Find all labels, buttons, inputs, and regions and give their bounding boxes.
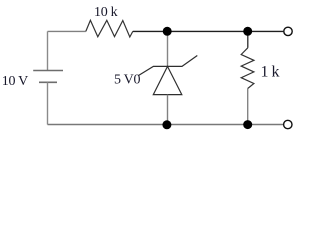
wire: left branch down from top rail to battery positive plate — [47, 31, 49, 70]
node D junction dot (bottom, load branch) — [243, 120, 252, 129]
node B junction dot (top, load branch) — [243, 27, 252, 36]
svg-text:10 V: 10 V — [2, 74, 28, 89]
battery V1 negative plate (short) — [39, 81, 57, 83]
resistor R2 1 k (vertical zigzag) — [241, 48, 254, 89]
node A junction dot (top, zener branch) — [163, 27, 172, 36]
wire: top rail from 10k resistor to node A through node B to output terminal — [133, 30, 284, 32]
svg-text:5 V0: 5 V0 — [114, 72, 140, 87]
svg-text:10 k: 10 k — [94, 5, 118, 20]
wire: load branch from top node B down to 1k resistor — [247, 31, 249, 47]
wire: top rail left segment from left branch to 10k resistor — [48, 30, 86, 32]
battery V1 positive plate (long) — [33, 70, 63, 72]
wire: from 1k resistor down to bottom rail node D — [247, 89, 249, 125]
resistor R1 10 k (horizontal zigzag) — [86, 20, 133, 37]
wire: left branch from battery negative plate down to bottom rail — [47, 82, 49, 124]
output terminal bottom (open circle) — [284, 120, 292, 128]
output terminal top (open circle) — [284, 27, 292, 35]
zener diode D1 anode triangle pointing up — [153, 66, 182, 94]
wire: zener branch from top node A down to zener cathode — [167, 31, 169, 66]
svg-text:1 k: 1 k — [261, 63, 280, 80]
wire: bottom rail from left branch to bottom output terminal — [48, 124, 284, 126]
node C junction dot (bottom, zener branch) — [162, 120, 171, 129]
wire: zener anode down to bottom rail node C — [167, 95, 169, 125]
zener diode D1 cathode bar with bent zener ticks — [139, 56, 198, 76]
